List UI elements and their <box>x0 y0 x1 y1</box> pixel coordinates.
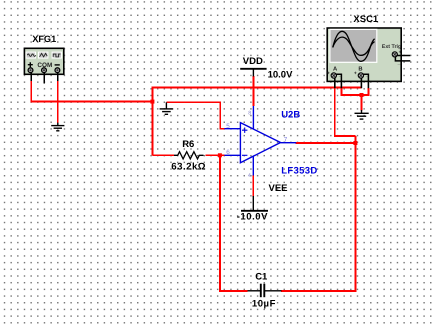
wire: op-amp output red y=142.4 <box>296 142 357 144</box>
svg-text:XSC1: XSC1 <box>353 14 379 25</box>
terminal pins XFG1 <box>31 73 58 84</box>
ground symbol below XFG1 minus <box>51 123 64 131</box>
wire: ground to pin5 horizontal y=102.3 <box>166 101 220 103</box>
wire: scope A drop horizontal y=135.9 <box>334 135 356 137</box>
wire: scope minus link horizontal y=95 <box>341 94 370 96</box>
svg-text:7: 7 <box>284 137 288 144</box>
svg-text:_: _ <box>338 72 342 78</box>
label LF353D <box>281 165 317 176</box>
wire: XFG1 plus to input net horizontal <box>30 101 152 103</box>
label VEE <box>269 183 288 194</box>
op-amp U2B LF353D <box>224 106 296 176</box>
function generator XFG1 <box>24 48 63 74</box>
wire: C1 right horizontal to riser <box>281 290 356 292</box>
label Ext Trig <box>382 44 401 50</box>
svg-text:6: 6 <box>226 149 230 156</box>
wire: output riser x=355.4 <box>354 136 356 292</box>
resistor R6 <box>174 152 204 159</box>
wire: scope ground drop red x=361.5 <box>361 95 363 110</box>
label C1 <box>255 271 268 282</box>
svg-text:_: _ <box>397 60 401 66</box>
node: junction feedback at (219.9,155.3) <box>218 153 222 157</box>
svg-text:+: + <box>327 70 330 76</box>
label VDD <box>243 56 263 67</box>
oscilloscope XSC1 <box>327 28 401 81</box>
label COM <box>37 62 52 69</box>
pin number 6 <box>226 149 230 156</box>
svg-text:8: 8 <box>248 110 251 116</box>
svg-text:XFG1: XFG1 <box>32 34 56 44</box>
label B <box>358 67 362 73</box>
pin number 8 <box>248 110 251 116</box>
svg-text:10.0V: 10.0V <box>268 69 293 80</box>
svg-text:+: + <box>354 70 357 76</box>
wire: input net vertical x=152.4 <box>151 88 153 156</box>
svg-text:C1: C1 <box>255 271 268 282</box>
wire: VEE red vertical <box>252 175 254 197</box>
label XFG1 <box>32 34 56 44</box>
node: junction output at (355.4,142.4) <box>353 141 357 145</box>
pin number 4 <box>248 173 251 179</box>
capacitor C1 <box>248 284 282 298</box>
svg-text:4: 4 <box>248 173 251 179</box>
node: junction scope ground at (361.5,95) <box>360 93 364 97</box>
svg-text:U2B: U2B <box>281 109 300 120</box>
wire: scope A plus drop x=334.8 <box>334 88 336 136</box>
svg-text:63.2kΩ: 63.2kΩ <box>171 162 206 173</box>
ground symbol at op-amp pin5 net <box>160 102 174 114</box>
svg-text:B: B <box>358 67 362 73</box>
wire: XFG1 plus output vertical <box>30 81 32 102</box>
terminal circle XFG1 minus <box>55 68 60 73</box>
label 10.0V <box>268 69 293 80</box>
svg-text:+: + <box>399 49 402 55</box>
label U2B <box>281 109 300 120</box>
node: junction input net at (152.4,101.6) <box>150 100 154 104</box>
wire: scope B minus drop <box>367 88 369 95</box>
wire: feedback vertical x=219.9 down to C1 <box>219 155 221 291</box>
terminal scope B <box>354 70 369 81</box>
terminal circle XFG1 plus <box>28 68 33 73</box>
pin number 7 <box>284 137 288 144</box>
terminal scope A <box>327 70 342 81</box>
svg-text:_: _ <box>365 72 369 78</box>
svg-text:VEE: VEE <box>269 183 288 194</box>
svg-text:LF353D: LF353D <box>281 165 317 176</box>
label plus terminal <box>28 62 33 67</box>
label XSC1 <box>353 14 379 25</box>
VDD power symbol <box>240 69 266 77</box>
wire: scope A minus drop <box>340 88 342 95</box>
label minus terminal <box>55 64 60 66</box>
terminal Ext Trig <box>392 49 410 66</box>
ground symbol below scope <box>355 110 369 119</box>
wire: R6 right to op-amp pin 6 red <box>205 154 224 156</box>
scope pin stubs <box>335 78 369 88</box>
svg-text:5: 5 <box>226 123 230 130</box>
wire: VDD red vertical <box>252 76 254 106</box>
svg-text:-10.0V: -10.0V <box>237 212 268 223</box>
label A <box>333 67 338 73</box>
label 10uF <box>252 299 276 310</box>
label -10.0V <box>237 212 268 223</box>
label R6 <box>182 139 194 150</box>
terminal circle XFG1 COM <box>42 68 47 73</box>
svg-text:R6: R6 <box>182 139 194 150</box>
VEE power symbol <box>241 196 268 211</box>
svg-text:VDD: VDD <box>243 56 263 67</box>
wire: pin5 net vertical x=220.2 <box>219 101 224 128</box>
wire: C1 left horizontal <box>219 290 248 292</box>
svg-text:10µF: 10µF <box>252 299 276 310</box>
wire: XFG1 minus down to ground <box>57 81 59 124</box>
wire: R6 left lead red <box>152 154 174 156</box>
pin number 5 <box>226 123 230 130</box>
wire: input net top horizontal y=87.6 to scope B plus <box>152 87 362 89</box>
scope sine trace <box>333 31 375 61</box>
label 63.2kOhm <box>171 162 206 173</box>
